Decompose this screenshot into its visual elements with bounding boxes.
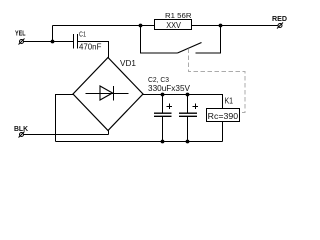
capacitor C1 plates (74, 34, 78, 49)
svg-text:C1: C1 (79, 32, 86, 39)
svg-text:YEL: YEL (15, 31, 26, 38)
junction dot C2 bottom (161, 140, 165, 144)
svg-text:BLK: BLK (14, 124, 29, 133)
wire C1 to bridge top (78, 42, 109, 59)
wire top rail (53, 25, 278, 27)
capacitor C2 plus sign (167, 104, 173, 110)
terminal BLK (19, 132, 25, 138)
terminal RED (277, 23, 283, 29)
wire YEL input (24, 41, 74, 43)
capacitor C3 plus sign (193, 104, 199, 110)
svg-text:VD1: VD1 (120, 58, 136, 68)
capacitor C2 plates (154, 113, 172, 116)
relay coil K1 box (207, 109, 240, 122)
svg-text:330uFx35V: 330uFx35V (148, 83, 190, 93)
svg-text:RED: RED (272, 14, 288, 23)
svg-text:K1: K1 (225, 97, 234, 106)
svg-text:R1 56R: R1 56R (165, 11, 192, 20)
dashed relay actuation link (189, 49, 246, 113)
wire corner up to top rail (52, 26, 54, 42)
wire mid rail from bridge right vertex (143, 95, 223, 110)
junction dot C2 top (161, 93, 165, 97)
junction dot rail right of R1 (219, 24, 223, 28)
bridge rectifier VD1 diamond (73, 58, 143, 131)
svg-text:XXV: XXV (166, 21, 181, 30)
capacitor C3 plates (179, 113, 197, 116)
resistor R1 box (155, 20, 192, 30)
wire bridge left vertex to left drop (56, 95, 74, 142)
capacitor C3 leads (187, 95, 189, 142)
svg-text:Rc=390: Rc=390 (208, 111, 239, 121)
svg-text:470nF: 470nF (79, 42, 101, 52)
switch K1.1 right contact (196, 26, 221, 54)
terminal YEL (19, 39, 25, 45)
switch K1.1 left lead (141, 26, 178, 54)
wire bridge bottom stub (108, 130, 110, 135)
capacitor C2 leads (162, 95, 164, 142)
junction dot C3 bottom (186, 140, 190, 144)
wire BLK input (24, 134, 109, 136)
switch K1.1 blade (178, 43, 202, 54)
wire bottom rail (56, 141, 223, 143)
junction dot YEL/C1 (51, 40, 55, 44)
junction dot rail left of R1 (139, 24, 143, 28)
diode inside VD1 (86, 86, 129, 101)
junction dot C3 top (186, 93, 190, 97)
wire relay coil lower lead (222, 121, 224, 142)
